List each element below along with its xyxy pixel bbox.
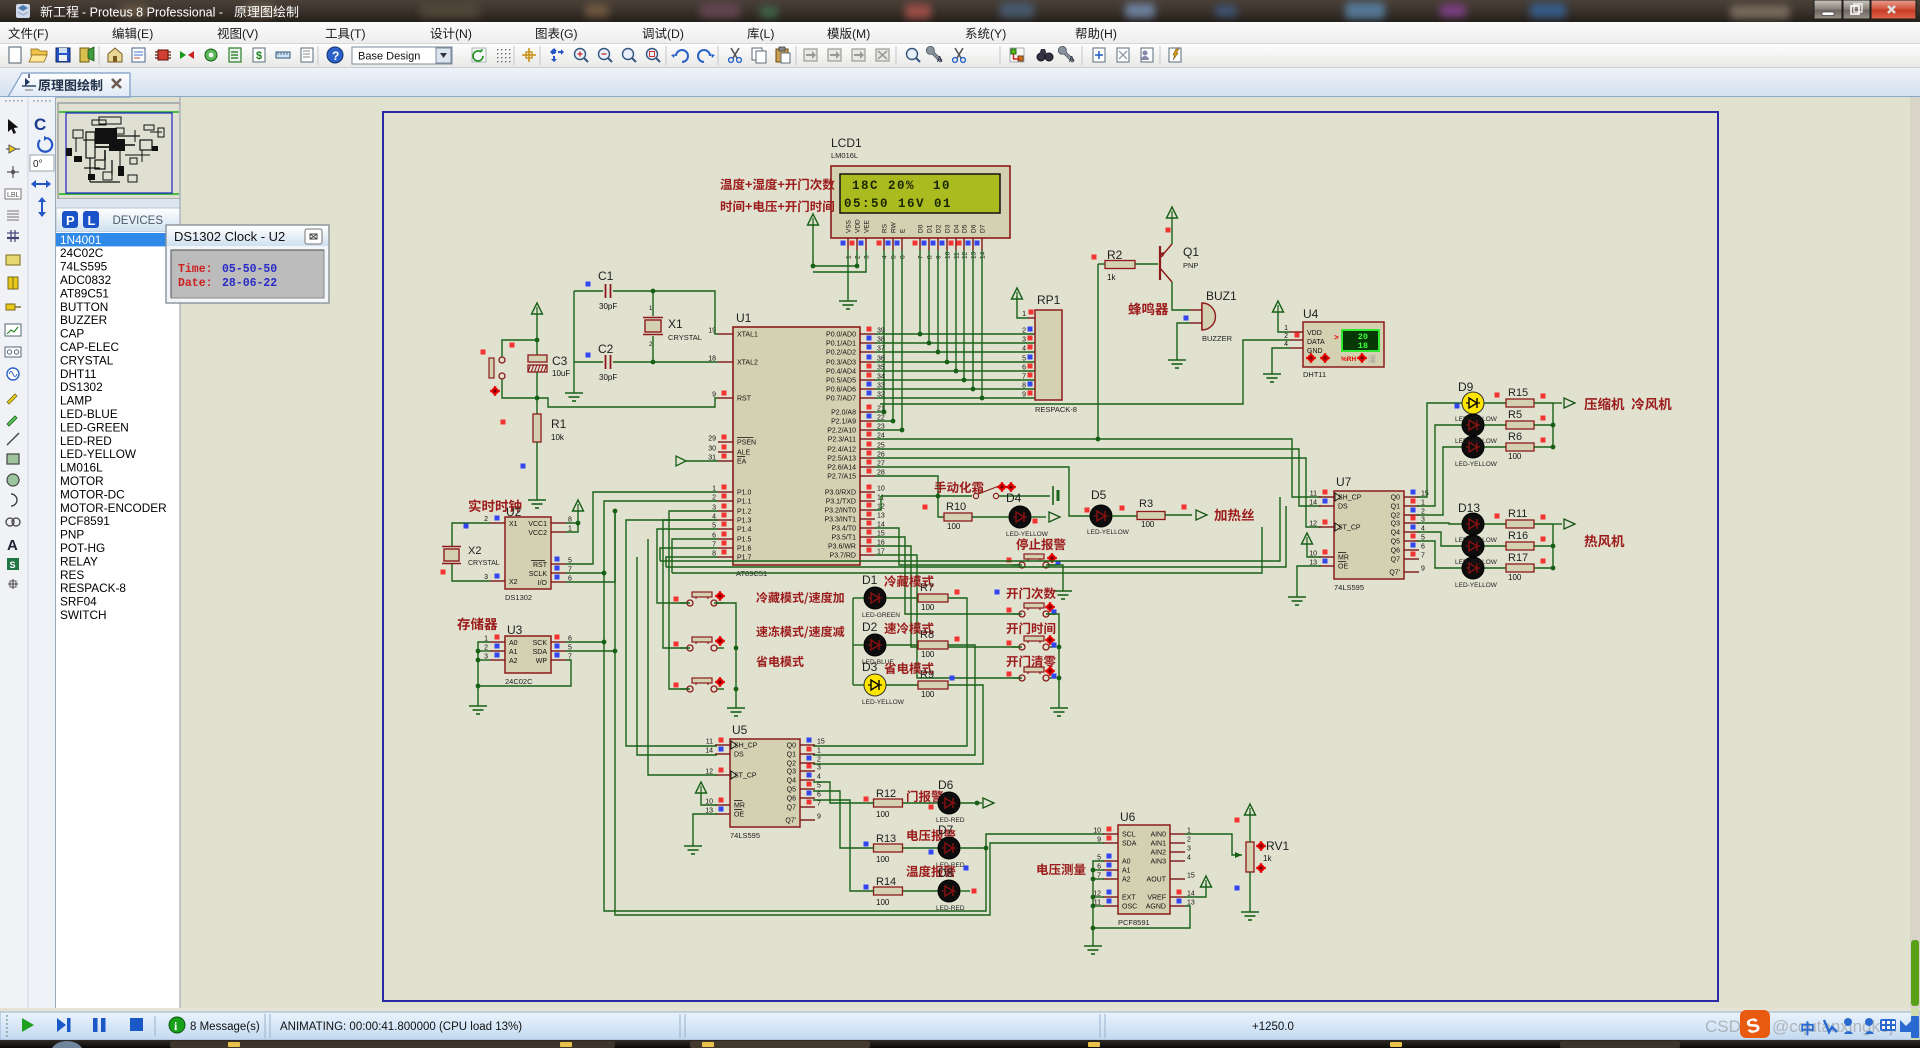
svg-text:05:50 16V 01: 05:50 16V 01 bbox=[844, 197, 952, 211]
svg-text:2: 2 bbox=[1022, 328, 1026, 335]
svg-text:A2: A2 bbox=[509, 658, 518, 665]
svg-text:P0.0/AD0: P0.0/AD0 bbox=[826, 332, 856, 339]
svg-text:5: 5 bbox=[817, 783, 821, 790]
svg-text:(L): (L) bbox=[760, 27, 775, 41]
svg-text:VEE: VEE bbox=[864, 219, 871, 233]
svg-text:18: 18 bbox=[1358, 341, 1368, 351]
svg-text:15: 15 bbox=[817, 739, 825, 746]
svg-text:1: 1 bbox=[846, 255, 853, 259]
svg-text:Q1: Q1 bbox=[787, 752, 796, 759]
svg-text:VCC1: VCC1 bbox=[528, 521, 547, 528]
svg-text:DS1302 Clock - U2: DS1302 Clock - U2 bbox=[174, 229, 285, 244]
svg-text:D8: D8 bbox=[938, 866, 954, 880]
svg-text:11: 11 bbox=[1310, 491, 1317, 498]
svg-text:R11: R11 bbox=[1508, 508, 1527, 520]
svg-text:P2.6/A14: P2.6/A14 bbox=[827, 465, 856, 472]
svg-text:100: 100 bbox=[1508, 452, 1522, 461]
svg-text:R17: R17 bbox=[1508, 552, 1528, 564]
svg-text:CRYSTAL: CRYSTAL bbox=[60, 353, 114, 367]
svg-text:10: 10 bbox=[877, 486, 885, 493]
svg-text:D5: D5 bbox=[962, 224, 969, 233]
svg-text:Q1: Q1 bbox=[1183, 245, 1199, 259]
svg-text:CRYSTAL: CRYSTAL bbox=[468, 560, 500, 567]
svg-text:1: 1 bbox=[817, 748, 821, 755]
svg-text:I/O: I/O bbox=[538, 580, 548, 587]
svg-text:100: 100 bbox=[921, 650, 935, 659]
svg-text:RS: RS bbox=[882, 223, 889, 233]
svg-text:6: 6 bbox=[1022, 365, 1026, 372]
svg-text:LED-YELLOW: LED-YELLOW bbox=[1006, 531, 1049, 538]
svg-text:D13: D13 bbox=[1458, 501, 1480, 515]
svg-text:LED-RED: LED-RED bbox=[60, 434, 112, 448]
svg-text:EXT: EXT bbox=[1122, 895, 1136, 902]
svg-text:R5: R5 bbox=[1508, 409, 1522, 421]
svg-text:Q7': Q7' bbox=[1389, 570, 1400, 577]
svg-text:Q3: Q3 bbox=[1391, 521, 1400, 528]
svg-text:0°: 0° bbox=[33, 159, 43, 170]
svg-text:3: 3 bbox=[864, 255, 871, 259]
svg-text:Date:: Date: bbox=[178, 277, 213, 290]
svg-text:D0: D0 bbox=[918, 224, 925, 233]
svg-text:100: 100 bbox=[1141, 520, 1155, 529]
svg-text:AIN1: AIN1 bbox=[1150, 841, 1166, 848]
svg-text:7: 7 bbox=[1421, 553, 1425, 560]
svg-text:BUTTON: BUTTON bbox=[60, 300, 108, 314]
svg-text:1N4001: 1N4001 bbox=[60, 233, 101, 247]
svg-text:Q7': Q7' bbox=[785, 818, 796, 825]
svg-text:RELAY: RELAY bbox=[60, 554, 98, 568]
svg-text:R9: R9 bbox=[920, 669, 934, 681]
svg-text:P1.2: P1.2 bbox=[737, 509, 752, 516]
svg-text:A0: A0 bbox=[509, 640, 518, 647]
svg-text:Q7: Q7 bbox=[787, 805, 796, 812]
svg-text:RST: RST bbox=[737, 396, 752, 403]
svg-text:DHT11: DHT11 bbox=[60, 367, 97, 381]
svg-text:ADC0832: ADC0832 bbox=[60, 273, 111, 287]
svg-text:E: E bbox=[900, 228, 907, 233]
svg-text:R10: R10 bbox=[946, 501, 966, 513]
svg-text:13: 13 bbox=[877, 513, 885, 520]
svg-text:R15: R15 bbox=[1508, 387, 1528, 399]
svg-text:LED-YELLOW: LED-YELLOW bbox=[1455, 438, 1498, 445]
svg-text:7: 7 bbox=[817, 801, 821, 808]
svg-text:2: 2 bbox=[1284, 333, 1288, 340]
svg-text:RP1: RP1 bbox=[1037, 293, 1061, 307]
svg-text:X1: X1 bbox=[509, 521, 518, 528]
svg-text:(D): (D) bbox=[667, 27, 684, 41]
svg-text:ST_CP: ST_CP bbox=[1338, 525, 1361, 532]
svg-text:100: 100 bbox=[921, 603, 935, 612]
svg-text:P0.3/AD3: P0.3/AD3 bbox=[826, 360, 856, 367]
svg-text:AT89C51: AT89C51 bbox=[60, 286, 109, 300]
svg-text:BUZZER: BUZZER bbox=[1202, 334, 1233, 343]
svg-text:24C02C: 24C02C bbox=[505, 677, 533, 686]
svg-text:CRYSTAL: CRYSTAL bbox=[668, 333, 702, 342]
svg-text:Q5: Q5 bbox=[1391, 539, 1400, 546]
svg-text:P2.3/A11: P2.3/A11 bbox=[828, 437, 856, 444]
svg-text:U4: U4 bbox=[1303, 307, 1319, 321]
svg-text:VSS: VSS bbox=[846, 219, 853, 233]
svg-text:L: L bbox=[88, 213, 96, 228]
svg-text:AIN3: AIN3 bbox=[1150, 859, 1166, 866]
svg-text:A1: A1 bbox=[1122, 868, 1131, 875]
svg-text:D6: D6 bbox=[938, 778, 954, 792]
svg-text:P0.1/AD1: P0.1/AD1 bbox=[826, 341, 856, 348]
svg-text:D3: D3 bbox=[945, 224, 952, 233]
svg-text:R12: R12 bbox=[876, 788, 896, 800]
svg-text:LED-YELLOW: LED-YELLOW bbox=[862, 699, 905, 706]
svg-text:6: 6 bbox=[900, 255, 907, 259]
svg-text:R16: R16 bbox=[1508, 530, 1528, 542]
svg-text:Q7: Q7 bbox=[1391, 557, 1400, 564]
svg-text:P3.5/T1: P3.5/T1 bbox=[831, 535, 856, 542]
svg-text:?: ? bbox=[332, 49, 339, 63]
svg-text:SH_CP: SH_CP bbox=[1338, 495, 1362, 502]
svg-text:BUZZER: BUZZER bbox=[60, 313, 107, 327]
svg-text:Time:: Time: bbox=[178, 263, 213, 276]
svg-text:Q3: Q3 bbox=[787, 769, 796, 776]
svg-text:3: 3 bbox=[484, 574, 488, 581]
svg-text:5: 5 bbox=[891, 255, 898, 259]
svg-text:DATA: DATA bbox=[1307, 339, 1325, 346]
svg-text:D3: D3 bbox=[862, 660, 878, 674]
svg-text:Base Design: Base Design bbox=[358, 51, 420, 63]
svg-text:A0: A0 bbox=[1122, 859, 1131, 866]
svg-text:74LS595: 74LS595 bbox=[730, 831, 760, 840]
svg-text:C: C bbox=[34, 115, 46, 134]
svg-text:30: 30 bbox=[708, 446, 716, 453]
svg-text:12: 12 bbox=[1309, 521, 1317, 528]
svg-text:MOTOR: MOTOR bbox=[60, 474, 104, 488]
svg-text:D2: D2 bbox=[862, 620, 878, 634]
svg-text:AIN0: AIN0 bbox=[1150, 832, 1166, 839]
svg-text:PNP: PNP bbox=[1183, 261, 1198, 270]
svg-text:RESPACK-8: RESPACK-8 bbox=[60, 581, 126, 595]
svg-text:LED-BLUE: LED-BLUE bbox=[60, 407, 118, 421]
svg-text:10: 10 bbox=[1093, 828, 1101, 835]
svg-text:14: 14 bbox=[705, 748, 713, 755]
svg-text:3: 3 bbox=[1022, 337, 1026, 344]
svg-text:X2: X2 bbox=[509, 579, 518, 586]
svg-text:Q4: Q4 bbox=[787, 778, 796, 785]
svg-text:LED-YELLOW: LED-YELLOW bbox=[60, 447, 137, 461]
svg-text:D4: D4 bbox=[1006, 491, 1022, 505]
svg-text:SRF04: SRF04 bbox=[60, 595, 97, 609]
svg-text:7: 7 bbox=[1022, 374, 1026, 381]
svg-text:Q1: Q1 bbox=[1391, 504, 1400, 511]
svg-text:SCL: SCL bbox=[1122, 832, 1136, 839]
svg-text:15: 15 bbox=[1187, 873, 1195, 880]
svg-text:9: 9 bbox=[1022, 392, 1026, 399]
svg-text:5: 5 bbox=[1022, 356, 1026, 363]
svg-text:PSEN: PSEN bbox=[737, 440, 756, 447]
svg-text:VREF: VREF bbox=[1147, 895, 1166, 902]
svg-text:9: 9 bbox=[1421, 566, 1425, 573]
svg-text:ANIMATING: 00:00:41.800000 (CP: ANIMATING: 00:00:41.800000 (CPU load 13%… bbox=[280, 1021, 522, 1033]
svg-text:X1: X1 bbox=[668, 317, 683, 331]
svg-text:R1: R1 bbox=[551, 417, 567, 431]
svg-text:4: 4 bbox=[1187, 855, 1191, 862]
svg-text:P1.1: P1.1 bbox=[737, 499, 752, 506]
svg-text:8 Message(s): 8 Message(s) bbox=[190, 1021, 260, 1033]
svg-text:$: $ bbox=[256, 50, 262, 62]
svg-text:LED-YELLOW: LED-YELLOW bbox=[1455, 559, 1498, 566]
svg-text:4: 4 bbox=[1284, 341, 1288, 348]
svg-text:S: S bbox=[10, 560, 16, 570]
svg-text:R6: R6 bbox=[1508, 431, 1522, 443]
svg-text:>: > bbox=[1334, 333, 1339, 342]
svg-text:LED-YELLOW: LED-YELLOW bbox=[1087, 529, 1130, 536]
svg-text:10uF: 10uF bbox=[552, 369, 570, 378]
svg-text:C2: C2 bbox=[598, 342, 614, 356]
svg-text:POT-HG: POT-HG bbox=[60, 541, 105, 555]
svg-text:8: 8 bbox=[927, 255, 934, 259]
svg-text:(T): (T) bbox=[350, 27, 366, 41]
svg-text:P2.0/A8: P2.0/A8 bbox=[831, 410, 856, 417]
svg-text:SWITCH: SWITCH bbox=[60, 608, 107, 622]
svg-text:(Y): (Y) bbox=[990, 27, 1006, 41]
svg-text:OSC: OSC bbox=[1122, 904, 1137, 911]
svg-text:(N): (N) bbox=[455, 27, 472, 41]
svg-text:A: A bbox=[937, 55, 943, 64]
svg-text:13: 13 bbox=[971, 251, 978, 259]
svg-text:U3: U3 bbox=[507, 623, 523, 637]
svg-text:(M): (M) bbox=[852, 27, 870, 41]
svg-text:P: P bbox=[66, 213, 75, 228]
svg-text:SCK: SCK bbox=[533, 640, 548, 647]
svg-text:R7: R7 bbox=[920, 582, 934, 594]
svg-text:VDD: VDD bbox=[855, 219, 862, 233]
svg-text:P2.1/A9: P2.1/A9 bbox=[831, 419, 856, 426]
svg-text:MR: MR bbox=[734, 803, 745, 810]
svg-text:9: 9 bbox=[936, 255, 943, 259]
svg-text:P3.0/RXD: P3.0/RXD bbox=[825, 490, 856, 497]
svg-text:LED-RED: LED-RED bbox=[936, 905, 965, 912]
svg-text:P0.2/AD2: P0.2/AD2 bbox=[826, 350, 856, 357]
svg-text:DS: DS bbox=[1338, 504, 1348, 511]
svg-text:P0.6/AD6: P0.6/AD6 bbox=[826, 387, 856, 394]
svg-text:GND: GND bbox=[1307, 348, 1323, 355]
svg-text:LED-YELLOW: LED-YELLOW bbox=[1455, 537, 1498, 544]
svg-text:SDA: SDA bbox=[1122, 841, 1137, 848]
svg-text:R3: R3 bbox=[1139, 498, 1153, 510]
svg-text:AGND: AGND bbox=[1146, 904, 1166, 911]
svg-text:8: 8 bbox=[1022, 383, 1026, 390]
svg-text:P2.2/A10: P2.2/A10 bbox=[827, 428, 856, 435]
svg-text:P3.2/INT0: P3.2/INT0 bbox=[824, 508, 856, 515]
svg-text:XTAL2: XTAL2 bbox=[737, 360, 758, 367]
svg-text:100: 100 bbox=[876, 810, 890, 819]
svg-text:D5: D5 bbox=[1091, 488, 1107, 502]
svg-text:RW: RW bbox=[891, 221, 898, 233]
svg-text:05-50-50: 05-50-50 bbox=[222, 263, 277, 276]
svg-text:P1.6: P1.6 bbox=[737, 546, 752, 553]
svg-text:P2.5/A13: P2.5/A13 bbox=[827, 456, 856, 463]
svg-text:D4: D4 bbox=[954, 224, 961, 233]
svg-text:A: A bbox=[7, 537, 18, 554]
svg-text:9: 9 bbox=[1097, 837, 1101, 844]
svg-text:P1.5: P1.5 bbox=[737, 537, 752, 544]
svg-text:P2.7/A15: P2.7/A15 bbox=[827, 474, 856, 481]
svg-text:Q6: Q6 bbox=[787, 796, 796, 803]
svg-text:(E): (E) bbox=[137, 27, 153, 41]
svg-text:LED-GREEN: LED-GREEN bbox=[60, 420, 129, 434]
svg-text:R14: R14 bbox=[876, 876, 896, 888]
svg-text:VDD: VDD bbox=[1307, 330, 1322, 337]
svg-text:Q0: Q0 bbox=[787, 743, 796, 750]
svg-text:10k: 10k bbox=[551, 433, 565, 442]
svg-text:74LS595: 74LS595 bbox=[60, 260, 108, 274]
svg-text:P2.4/A12: P2.4/A12 bbox=[827, 447, 856, 454]
svg-text:C1: C1 bbox=[598, 269, 614, 283]
svg-text:LAMP: LAMP bbox=[60, 394, 92, 408]
svg-text:U1: U1 bbox=[736, 311, 752, 325]
svg-text:U7: U7 bbox=[1336, 475, 1352, 489]
svg-text:(G): (G) bbox=[560, 27, 578, 41]
svg-text:DS1302: DS1302 bbox=[505, 593, 532, 602]
svg-text:4: 4 bbox=[882, 255, 889, 259]
svg-text:18C 20% 10: 18C 20% 10 bbox=[852, 179, 951, 193]
svg-text:OE: OE bbox=[734, 812, 744, 819]
svg-text:@cqutanxingkeji: @cqutanxingkeji bbox=[1772, 1017, 1897, 1036]
svg-text:AIN2: AIN2 bbox=[1150, 850, 1166, 857]
svg-text:100: 100 bbox=[921, 690, 935, 699]
svg-text:LCD1: LCD1 bbox=[831, 136, 862, 150]
svg-text:- Proteus 8 Professional -: - Proteus 8 Professional - bbox=[82, 6, 223, 20]
svg-text:A2: A2 bbox=[1122, 877, 1131, 884]
svg-text:RV1: RV1 bbox=[1266, 839, 1289, 853]
svg-text:14: 14 bbox=[980, 251, 987, 259]
svg-text:24C02C: 24C02C bbox=[60, 246, 104, 260]
svg-text:A: A bbox=[1069, 55, 1075, 64]
svg-text:LED-YELLOW: LED-YELLOW bbox=[1455, 461, 1498, 468]
svg-text:3: 3 bbox=[817, 765, 821, 772]
svg-text:29: 29 bbox=[708, 436, 716, 443]
svg-text:D1: D1 bbox=[862, 573, 878, 587]
svg-text:LED-YELLOW: LED-YELLOW bbox=[1455, 416, 1498, 423]
svg-text:CAP-ELEC: CAP-ELEC bbox=[60, 340, 119, 354]
svg-text:LBL: LBL bbox=[7, 192, 20, 199]
svg-text:1: 1 bbox=[1022, 311, 1026, 318]
svg-text:2: 2 bbox=[1187, 837, 1191, 844]
svg-text:RST: RST bbox=[533, 562, 548, 569]
svg-text:1: 1 bbox=[1284, 325, 1288, 332]
svg-text:PNP: PNP bbox=[60, 528, 84, 542]
svg-text:XTAL1: XTAL1 bbox=[737, 332, 758, 339]
svg-text:CAP: CAP bbox=[60, 327, 84, 341]
svg-text:4: 4 bbox=[817, 774, 821, 781]
svg-text:LM016L: LM016L bbox=[60, 461, 103, 475]
svg-text:11: 11 bbox=[954, 252, 961, 259]
svg-text:12: 12 bbox=[962, 251, 969, 259]
svg-text:30pF: 30pF bbox=[599, 373, 617, 382]
svg-text:ST_CP: ST_CP bbox=[734, 773, 757, 780]
svg-text:LM016L: LM016L bbox=[831, 151, 858, 160]
svg-text:(V): (V) bbox=[242, 27, 258, 41]
svg-text:PCF8591: PCF8591 bbox=[60, 514, 110, 528]
svg-text:MR: MR bbox=[1338, 555, 1349, 562]
svg-text:30pF: 30pF bbox=[599, 302, 617, 311]
svg-text:A1: A1 bbox=[509, 649, 518, 656]
svg-text:P1.4: P1.4 bbox=[737, 527, 752, 534]
svg-text:R8: R8 bbox=[920, 629, 934, 641]
svg-text:3: 3 bbox=[1187, 846, 1191, 853]
svg-text:D7: D7 bbox=[938, 823, 954, 837]
svg-text:RES: RES bbox=[60, 568, 84, 582]
svg-text:74LS595: 74LS595 bbox=[1334, 583, 1364, 592]
svg-text:9: 9 bbox=[817, 814, 821, 821]
svg-text:PCF8591: PCF8591 bbox=[1118, 918, 1150, 927]
svg-text:C3: C3 bbox=[552, 354, 568, 368]
svg-text:U5: U5 bbox=[732, 723, 748, 737]
svg-text:P1.3: P1.3 bbox=[737, 518, 752, 525]
svg-text:P0.4/AD4: P0.4/AD4 bbox=[826, 369, 856, 376]
svg-text:2: 2 bbox=[484, 516, 488, 523]
svg-text:P3.4/T0: P3.4/T0 bbox=[831, 526, 856, 533]
svg-text:6: 6 bbox=[1421, 544, 1425, 551]
svg-text:AOUT: AOUT bbox=[1147, 877, 1167, 884]
svg-text:MOTOR-DC: MOTOR-DC bbox=[60, 487, 125, 501]
svg-text:P0.7/AD7: P0.7/AD7 bbox=[826, 396, 856, 403]
svg-text:SH_CP: SH_CP bbox=[734, 743, 758, 750]
svg-text:P3.7/RD: P3.7/RD bbox=[830, 553, 856, 560]
svg-text:SDA: SDA bbox=[533, 649, 548, 656]
svg-text:Q5: Q5 bbox=[787, 787, 796, 794]
svg-text:D1: D1 bbox=[927, 224, 934, 233]
svg-text:U6: U6 bbox=[1120, 810, 1136, 824]
svg-text:MOTOR-ENCODER: MOTOR-ENCODER bbox=[60, 501, 167, 515]
svg-text:Q6: Q6 bbox=[1391, 548, 1400, 555]
svg-text:Q2: Q2 bbox=[787, 761, 796, 768]
svg-text:LED-GREEN: LED-GREEN bbox=[862, 612, 900, 619]
svg-text:OE: OE bbox=[1338, 564, 1348, 571]
svg-text:DEVICES: DEVICES bbox=[113, 215, 164, 227]
svg-text:100: 100 bbox=[947, 522, 961, 531]
svg-text:28-06-22: 28-06-22 bbox=[222, 277, 277, 290]
svg-text:X2: X2 bbox=[468, 545, 481, 557]
svg-text:D2: D2 bbox=[936, 224, 943, 233]
svg-text:4: 4 bbox=[1022, 346, 1026, 353]
svg-text:(F): (F) bbox=[33, 27, 49, 41]
svg-text:DS: DS bbox=[734, 752, 744, 759]
svg-text:P3.6/WR: P3.6/WR bbox=[828, 544, 856, 551]
svg-text:100: 100 bbox=[876, 855, 890, 864]
svg-text:2: 2 bbox=[855, 255, 862, 259]
svg-text:P1.0: P1.0 bbox=[737, 490, 752, 497]
svg-text:Q0: Q0 bbox=[1391, 495, 1400, 502]
svg-text:11: 11 bbox=[706, 739, 713, 746]
svg-text:P3.1/TXD: P3.1/TXD bbox=[826, 499, 856, 506]
svg-text:P0.5/AD5: P0.5/AD5 bbox=[826, 378, 856, 385]
svg-text:2: 2 bbox=[817, 757, 821, 764]
svg-text:+1250.0: +1250.0 bbox=[1252, 1021, 1294, 1033]
svg-text:VCC2: VCC2 bbox=[528, 530, 547, 537]
svg-text:ALE: ALE bbox=[737, 450, 751, 457]
svg-text:SCLK: SCLK bbox=[529, 571, 548, 578]
svg-text:P3.3/INT1: P3.3/INT1 bbox=[824, 517, 856, 524]
svg-text:WP: WP bbox=[536, 658, 548, 665]
svg-text:EA: EA bbox=[737, 459, 747, 466]
svg-text:LED-YELLOW: LED-YELLOW bbox=[1455, 582, 1498, 589]
svg-text:R13: R13 bbox=[876, 833, 896, 845]
svg-text:1k: 1k bbox=[1263, 854, 1272, 863]
svg-text:10: 10 bbox=[945, 251, 952, 259]
svg-text:D6: D6 bbox=[971, 224, 978, 233]
svg-text:6: 6 bbox=[817, 792, 821, 799]
svg-text:100: 100 bbox=[1508, 573, 1522, 582]
svg-text:DHT11: DHT11 bbox=[1303, 370, 1326, 379]
svg-text:Q2: Q2 bbox=[1391, 513, 1400, 520]
